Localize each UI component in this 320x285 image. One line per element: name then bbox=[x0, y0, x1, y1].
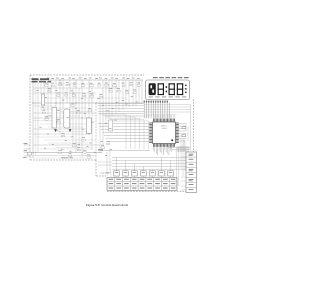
svg-text:LCD LAMP: LCD LAMP bbox=[101, 172, 112, 175]
svg-text:HEATER UNIT: HEATER UNIT bbox=[61, 157, 74, 160]
svg-text:440AN: 440AN bbox=[161, 127, 167, 130]
svg-text:Figure 5-8. Control board circ: Figure 5-8. Control board circuit bbox=[86, 203, 128, 207]
